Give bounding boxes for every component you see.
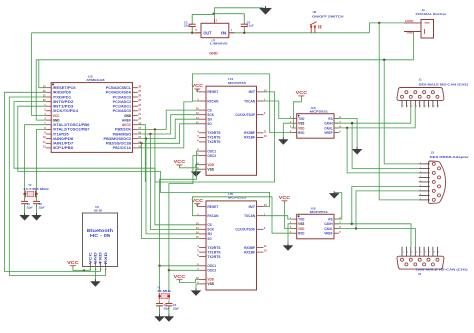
wire MOSI to U5 SI bbox=[146, 139, 199, 234]
wire C2 top lead bbox=[168, 301, 170, 304]
switch U8 ON/OFF bbox=[310, 22, 321, 33]
svg-text:/RXD/PD0: /RXD/PD0 bbox=[53, 91, 71, 95]
svg-text:VCC: VCC bbox=[174, 274, 186, 279]
capacitor C2 plates bbox=[165, 304, 172, 306]
pin 5 J1 bbox=[418, 95, 421, 98]
pin 4 J1 bbox=[414, 91, 417, 94]
svg-text:PB1/OC1A: PB1/OC1A bbox=[113, 146, 132, 150]
capacitor C4 plates bbox=[241, 24, 248, 26]
svg-text:GND: GND bbox=[53, 118, 60, 122]
svg-text:RXCAN: RXCAN bbox=[207, 214, 218, 218]
svg-text:IN: IN bbox=[221, 31, 226, 36]
pin SCK U4 bbox=[199, 114, 206, 116]
svg-text:RX0BF: RX0BF bbox=[244, 246, 256, 250]
svg-text:SI: SI bbox=[207, 232, 211, 236]
wire VCC to rail bbox=[32, 33, 46, 116]
svg-text:PC1/ADC1: PC1/ADC1 bbox=[113, 105, 131, 109]
ground U2 VSS bbox=[283, 243, 293, 250]
wire XTAL2 to Y2 bbox=[37, 129, 46, 194]
wire CANL2 to J2 bbox=[334, 229, 415, 247]
svg-text:/XCK/T0/PD4: /XCK/T0/PD4 bbox=[53, 109, 78, 113]
wire C2 bottom lead bbox=[168, 306, 170, 317]
junction CANL1 bbox=[346, 127, 348, 129]
wire U5 VSS to gnd bbox=[196, 284, 199, 291]
IC U5 MCP2515 body bbox=[206, 201, 257, 290]
svg-text:SI: SI bbox=[207, 118, 211, 122]
capacitor C5 plates bbox=[21, 201, 28, 203]
pin TX0RTS U4 bbox=[199, 132, 206, 134]
svg-text:MCP2551: MCP2551 bbox=[310, 109, 329, 113]
svg-text:ON/OFF SWITCH: ON/OFF SWITCH bbox=[312, 15, 343, 19]
wire C4 to GND bbox=[214, 13, 245, 15]
pin SI U5 bbox=[199, 233, 206, 235]
pin RS U3 bbox=[334, 118, 339, 120]
pin RXCAN U4 bbox=[199, 100, 206, 102]
pin VREF U2 bbox=[334, 232, 339, 234]
wire SCK to U5 CS bbox=[155, 129, 199, 224]
junction BT vcc bbox=[83, 269, 85, 271]
pin PC5/ADC5SCL U1 bbox=[133, 87, 138, 89]
pin SCK U5 bbox=[199, 228, 206, 230]
svg-text:Bluetooth: Bluetooth bbox=[87, 228, 113, 234]
pin TX2RTS U5 bbox=[199, 256, 206, 258]
pin OSC1 U5 bbox=[199, 265, 206, 267]
wire U2 VSS to gnd bbox=[288, 224, 292, 246]
pin PC2/ADC2 U1 bbox=[133, 101, 138, 103]
pin OSC2 U4 bbox=[199, 155, 206, 157]
wire INT1 to U5 INT bbox=[18, 106, 270, 206]
pin TX0RTS U5 bbox=[199, 247, 206, 249]
junction CANH2 bbox=[351, 223, 353, 225]
svg-text:PC0/ADC0: PC0/ADC0 bbox=[113, 109, 131, 113]
wire +5V rail left (OUT of U7) bbox=[32, 32, 201, 34]
IC U3 MCP2551 body bbox=[297, 114, 334, 139]
pin PC4/ADC4SDA U1 bbox=[133, 91, 138, 93]
pin GND stub J4 bbox=[404, 31, 421, 33]
wire C3 to GND bbox=[192, 13, 214, 15]
svg-text:GND: GND bbox=[209, 51, 218, 55]
svg-text:PC3/ADC3: PC3/ADC3 bbox=[113, 95, 131, 99]
svg-text:VREF: VREF bbox=[324, 130, 333, 135]
capacitor C3 plates bbox=[189, 24, 196, 26]
pin RXCAN U5 bbox=[199, 215, 206, 217]
svg-text:HC-05: HC-05 bbox=[94, 209, 103, 213]
wire C4 bottom lead bbox=[243, 27, 245, 33]
svg-text:VSS: VSS bbox=[207, 282, 214, 286]
svg-text:/AIN1/PD7: /AIN1/PD7 bbox=[53, 142, 74, 146]
pin VDD U2 bbox=[292, 228, 297, 230]
junction C3 rail bbox=[191, 32, 193, 34]
svg-text:TX2RTS: TX2RTS bbox=[207, 140, 221, 144]
svg-text:OSC2: OSC2 bbox=[207, 269, 216, 273]
pin INT U4 bbox=[257, 91, 264, 93]
svg-text:GND: GND bbox=[124, 114, 131, 118]
svg-text:PB3/MOSI/OC2: PB3/MOSI/OC2 bbox=[104, 137, 132, 141]
pin 8 J3 bbox=[419, 194, 430, 196]
svg-text:RXD: RXD bbox=[298, 130, 304, 135]
pin PB4/MISO U1 bbox=[133, 133, 138, 135]
module U6 Bluetooth HC-05 body bbox=[83, 213, 118, 267]
svg-text:GND: GND bbox=[407, 30, 413, 34]
connector J2 DE9 MALE HS-CAN (CH1) bbox=[397, 256, 444, 269]
pin /INT0/PD2 U1 bbox=[46, 101, 51, 103]
junction SS branch bbox=[140, 142, 142, 144]
svg-text:VCC: VCC bbox=[174, 159, 186, 164]
junction cap gnd bbox=[213, 13, 215, 15]
wire U5 TXCAN to U2 TXD bbox=[264, 216, 292, 219]
svg-text:PC2/ADC2: PC2/ADC2 bbox=[113, 100, 131, 104]
svg-text:16 MHz: 16 MHz bbox=[157, 289, 172, 293]
ground U3 RS bbox=[352, 147, 362, 154]
pin 2 GND stub U7 bbox=[213, 18, 215, 23]
junction Y2 left bbox=[23, 193, 25, 195]
svg-text:22pF: 22pF bbox=[26, 206, 33, 209]
wire RESET bbox=[39, 60, 46, 88]
svg-text:RX1BF: RX1BF bbox=[244, 250, 256, 254]
pin CS U5 bbox=[199, 224, 206, 226]
svg-text:COAXIAL Buchse: COAXIAL Buchse bbox=[416, 12, 447, 16]
pin PC1/ADC1 U1 bbox=[133, 105, 138, 107]
pin 3 OUT stub U7 bbox=[194, 32, 201, 34]
junction OSC2 Y1 bbox=[168, 269, 170, 271]
wire MISO to U5 SCK bbox=[150, 134, 199, 229]
wire C3 top lead bbox=[191, 14, 193, 24]
junction MISO branch bbox=[149, 133, 151, 135]
svg-text:RESET: RESET bbox=[207, 90, 219, 94]
pin AVCC U1 bbox=[133, 124, 138, 126]
pin AREF U1 bbox=[133, 119, 138, 121]
pin /XCK/T0/PD4 U1 bbox=[46, 110, 51, 112]
ground U4 VSS bbox=[191, 169, 201, 176]
pin 4 J2 bbox=[414, 263, 417, 266]
pin RESET U5 bbox=[199, 206, 206, 208]
wire VCC to U2 VDD bbox=[285, 201, 297, 229]
wire SS to U4 SO bbox=[138, 124, 199, 144]
wire CANH1 to J3 bbox=[352, 123, 419, 168]
svg-text:VDD: VDD bbox=[207, 278, 214, 282]
svg-text:DE9 MALE HS-CAN (CH1): DE9 MALE HS-CAN (CH1) bbox=[416, 268, 468, 272]
pin VDD U3 bbox=[292, 127, 297, 129]
svg-text:TX0RTS: TX0RTS bbox=[207, 131, 221, 135]
svg-text:TX0RTS: TX0RTS bbox=[207, 246, 221, 250]
wire GND to J3 pin bbox=[384, 60, 419, 164]
pin TXD U6 bbox=[100, 262, 102, 267]
pin RESET U4 bbox=[199, 91, 206, 93]
pin /TXD/PD1 U1 bbox=[46, 96, 51, 98]
wire CANH2 to J2 bbox=[334, 224, 411, 247]
svg-text:PB4/MISO: PB4/MISO bbox=[113, 132, 132, 136]
pin 6 J2 bbox=[423, 263, 426, 266]
svg-text:/T1/PD5: /T1/PD5 bbox=[53, 132, 69, 136]
pin RXD U2 bbox=[292, 232, 297, 234]
wire OSC1 shared bbox=[160, 151, 200, 266]
wire GND to bus bbox=[36, 60, 46, 120]
wire VCC to U4 RESET bbox=[197, 89, 199, 92]
pin VREF U3 bbox=[334, 132, 339, 134]
pin RS U2 bbox=[334, 218, 339, 220]
wire U3 RXD to U4 RXCAN bbox=[192, 74, 291, 133]
pin TX2RTS U4 bbox=[199, 141, 206, 143]
pin RX0BF U5 bbox=[257, 247, 264, 249]
pin PB2/SS/OC1B U1 bbox=[133, 142, 138, 144]
pin /RESET/PC6 U1 bbox=[46, 87, 51, 89]
wire Y1 right lead bbox=[168, 270, 170, 292]
pin SO U4 bbox=[199, 123, 206, 125]
svg-text:VDD: VDD bbox=[207, 163, 214, 167]
ground C2 bbox=[164, 314, 174, 321]
pin 2 J2 bbox=[405, 263, 408, 266]
svg-text:SO: SO bbox=[207, 237, 212, 241]
svg-text:/INT1/PD3: /INT1/PD3 bbox=[53, 105, 74, 109]
svg-text:CLKOUTSOF: CLKOUTSOF bbox=[235, 113, 256, 117]
svg-text:AREF: AREF bbox=[122, 118, 132, 122]
svg-text:/RESET/PC6: /RESET/PC6 bbox=[53, 86, 76, 90]
pin 9 J2 bbox=[436, 258, 439, 261]
svg-text:OUT: OUT bbox=[203, 31, 212, 36]
pin CANH U3 bbox=[334, 122, 339, 124]
svg-text:OSC1: OSC1 bbox=[207, 264, 216, 268]
svg-text:VCC: VCC bbox=[192, 198, 204, 203]
svg-text:DE9 MALE MS-CAN (CH2): DE9 MALE MS-CAN (CH2) bbox=[419, 82, 468, 86]
pin 2 J3 bbox=[419, 167, 430, 169]
svg-text:TX2RTS: TX2RTS bbox=[207, 255, 221, 259]
junction Y2 right bbox=[35, 193, 37, 195]
pin CANL U3 bbox=[334, 127, 339, 129]
svg-text:HC - 05: HC - 05 bbox=[90, 233, 111, 239]
pin 5 J2 bbox=[418, 258, 421, 261]
junction MOSI branch bbox=[145, 137, 147, 139]
wire VCC HC05 bbox=[73, 266, 90, 271]
wire C6 bottom lead bbox=[36, 204, 38, 215]
IC U4 MCP2515 body bbox=[206, 86, 257, 175]
wire MOSI to U4 SI bbox=[138, 119, 199, 138]
wire INT0 to U4 INT bbox=[14, 92, 275, 182]
wire C1 bottom lead bbox=[159, 306, 161, 317]
pin VDD U4 bbox=[199, 164, 206, 166]
svg-text:/XTAL2/TOSC2/PB7: /XTAL2/TOSC2/PB7 bbox=[53, 128, 90, 132]
pin /AIN0/PD6 U1 bbox=[46, 138, 51, 140]
pin RX1BF U4 bbox=[257, 136, 264, 138]
svg-text:DE9 OBDII-Adapter: DE9 OBDII-Adapter bbox=[430, 155, 470, 159]
pin RX0BF U4 bbox=[257, 132, 264, 134]
svg-text:INT: INT bbox=[249, 90, 257, 94]
pin 9 J1 bbox=[436, 95, 439, 98]
pin 1 J1 bbox=[401, 95, 404, 98]
pin 3 J1 bbox=[409, 95, 412, 98]
pin VSS U2 bbox=[292, 223, 297, 225]
ground regulator bbox=[260, 6, 272, 14]
pin VSS U5 bbox=[199, 283, 206, 285]
junction CANL2 bbox=[355, 227, 357, 229]
wire U2 RS to gnd bbox=[334, 193, 342, 220]
wire U3 VSS to gnd bbox=[283, 123, 291, 139]
svg-text:RXD: RXD bbox=[104, 251, 108, 264]
junction Y1 right lead bbox=[168, 295, 170, 297]
wire J4 GND down bbox=[413, 32, 415, 60]
pin 7 J3 bbox=[419, 190, 430, 192]
svg-text:MCP2551: MCP2551 bbox=[310, 210, 329, 214]
svg-text:CLKOUTSOF: CLKOUTSOF bbox=[235, 228, 256, 232]
connector J3 DE9 OBDII-Adapter bbox=[429, 161, 446, 203]
pin SO U5 bbox=[199, 237, 206, 239]
svg-text:TXCAN: TXCAN bbox=[244, 99, 255, 103]
svg-text:GND: GND bbox=[94, 251, 98, 264]
svg-text:VCC: VCC bbox=[192, 83, 204, 88]
svg-text:22pF: 22pF bbox=[38, 206, 45, 209]
wire U2 RXD to U5 RXCAN bbox=[192, 197, 291, 233]
pin 9 J3 bbox=[419, 199, 430, 201]
junction Y1 left lead bbox=[158, 295, 160, 297]
pin GND U6 bbox=[94, 262, 96, 267]
pin INT U5 bbox=[257, 206, 264, 208]
ground C5 bbox=[20, 213, 30, 220]
pin 1 J2 bbox=[401, 258, 404, 261]
svg-text:J1: J1 bbox=[419, 78, 423, 82]
svg-text:INT: INT bbox=[249, 205, 257, 209]
wire CANH1 to J1 bbox=[334, 107, 411, 123]
wire CANL2 to J3 bbox=[356, 191, 419, 229]
pin 12VDC stub J4 bbox=[404, 22, 421, 24]
svg-text:AVCC: AVCC bbox=[122, 123, 132, 127]
crystal Y1 symbol bbox=[159, 293, 169, 300]
microcontroller U1 ATMEGA8 body bbox=[51, 83, 132, 153]
capacitor C6 plates bbox=[33, 201, 40, 203]
wire rail right (IN of U7 to switch) bbox=[229, 32, 370, 34]
wire U4 TXCAN to U3 TXD bbox=[264, 101, 292, 119]
pin GND U1 bbox=[46, 119, 51, 121]
wire SCK to U4 CS bbox=[138, 110, 199, 129]
junction 12V branch bbox=[378, 22, 380, 24]
op-amp U7 L4940V5 body bbox=[201, 23, 229, 37]
ground U2 RS bbox=[329, 191, 339, 198]
pin 8 J2 bbox=[431, 263, 434, 266]
pin 1 marker U3 bbox=[298, 115, 300, 117]
pin PB3/MOSI/OC2 U1 bbox=[133, 138, 138, 140]
ground HC-05 bbox=[91, 279, 101, 286]
pin TX1RTS U4 bbox=[199, 136, 206, 138]
pin 1 J3 bbox=[419, 163, 430, 165]
pin CS U4 bbox=[199, 109, 206, 111]
svg-text:RX0BF: RX0BF bbox=[244, 131, 256, 135]
pin VDD U5 bbox=[199, 278, 206, 280]
wire TXD to HC05 bbox=[9, 97, 105, 275]
wire U3 RS to gnd bbox=[334, 119, 357, 150]
svg-text:PB2/SS/OC1B: PB2/SS/OC1B bbox=[106, 142, 132, 146]
pin SI U4 bbox=[199, 118, 206, 120]
svg-text:U8: U8 bbox=[313, 10, 317, 14]
IC U2 MCP2551 body bbox=[297, 214, 334, 239]
svg-text:22pF: 22pF bbox=[172, 307, 179, 310]
wire U4 VSS to gnd bbox=[196, 169, 199, 171]
pin PC0/ADC0 U1 bbox=[133, 110, 138, 112]
wire GND HC05 bbox=[94, 267, 96, 282]
wire 12V to J4 bbox=[370, 23, 405, 33]
pin 1 IN stub U7 bbox=[229, 32, 235, 34]
pin /ICP1/PB0 U1 bbox=[46, 147, 51, 149]
wire GND bus horizontal bbox=[36, 59, 413, 61]
pin TXD U3 bbox=[292, 118, 297, 120]
wire 12V down to J3 pin 9 bbox=[379, 23, 419, 200]
ground U5 VSS bbox=[191, 288, 201, 295]
wire CANL1 to J3 bbox=[347, 128, 419, 173]
ground U3 VSS bbox=[279, 137, 289, 144]
svg-text:/AIN0/PD6: /AIN0/PD6 bbox=[53, 137, 74, 141]
ground C6 bbox=[32, 213, 42, 220]
wire MISO to U4 SCK bbox=[138, 115, 199, 134]
wire VCC to U5 RESET bbox=[197, 204, 199, 207]
pin TX1RTS U5 bbox=[199, 251, 206, 253]
pin VCC U6 bbox=[89, 262, 91, 267]
wire VCC to U4 VDD bbox=[179, 165, 199, 168]
pin /AIN1/PD7 U1 bbox=[46, 142, 51, 144]
pin GND U1 bbox=[133, 115, 138, 117]
junction CANH1 bbox=[351, 122, 353, 124]
wire AVCC bbox=[138, 125, 145, 182]
svg-text:22uF: 22uF bbox=[183, 24, 191, 28]
svg-text:SCK: SCK bbox=[207, 113, 214, 117]
connector J4 body bbox=[421, 20, 434, 39]
svg-text:PC5/ADC5SCL: PC5/ADC5SCL bbox=[106, 86, 132, 90]
svg-text:TXCAN: TXCAN bbox=[244, 214, 255, 218]
pin 1 marker U1 bbox=[52, 84, 54, 86]
ground C1 bbox=[155, 314, 165, 321]
pin PB5/SCK U1 bbox=[133, 128, 138, 130]
svg-text:CS: CS bbox=[207, 108, 212, 112]
connector J1 DE9 MALE MS-CAN (CH2) bbox=[397, 88, 444, 101]
pin RXD U3 bbox=[292, 132, 297, 134]
pin 8 J1 bbox=[431, 91, 434, 94]
pin 3 J3 bbox=[419, 172, 430, 174]
wire Y1 left lead bbox=[159, 266, 161, 292]
wire VCC to U3 VDD bbox=[293, 96, 301, 128]
pin CANH U2 bbox=[334, 223, 339, 225]
pin 1 marker U2 bbox=[298, 216, 300, 218]
wire C5 bottom lead bbox=[24, 204, 26, 215]
wire C3 bottom lead bbox=[191, 27, 193, 33]
wire VCC to U5 VDD bbox=[179, 279, 199, 282]
svg-text:0.1uF: 0.1uF bbox=[247, 24, 254, 28]
pin /INT1/PD3 U1 bbox=[46, 105, 51, 107]
pin 5 J3 bbox=[419, 181, 430, 183]
svg-text:RXCAN: RXCAN bbox=[207, 99, 218, 103]
svg-text:/ICP1/PB0: /ICP1/PB0 bbox=[53, 146, 74, 150]
pin TXD U2 bbox=[292, 218, 297, 220]
wire CANL1 to J1 bbox=[334, 107, 415, 128]
svg-text:SCK: SCK bbox=[207, 228, 214, 232]
svg-text:14.7456 MHz: 14.7456 MHz bbox=[23, 187, 50, 191]
pin CANL U2 bbox=[334, 228, 339, 230]
pin 2 J1 bbox=[405, 91, 408, 94]
pin OSC1 U4 bbox=[199, 150, 206, 152]
svg-text:TX1RTS: TX1RTS bbox=[207, 250, 221, 254]
svg-text:RXD: RXD bbox=[298, 231, 304, 236]
pin CLKOUTSOF U4 bbox=[257, 114, 264, 116]
pin /XTAL1/TOSC1/PB6 U1 bbox=[46, 124, 51, 126]
svg-text:RX1BF: RX1BF bbox=[244, 136, 256, 140]
svg-text:/INT0/PD2: /INT0/PD2 bbox=[53, 100, 74, 104]
svg-text:SO: SO bbox=[207, 122, 212, 126]
svg-text:MCP2515: MCP2515 bbox=[228, 81, 247, 85]
svg-text:VCC: VCC bbox=[53, 114, 60, 118]
pin /RXD/PD0 U1 bbox=[46, 91, 51, 93]
wire XTAL1 to Y2 bbox=[25, 125, 46, 194]
svg-text:CS: CS bbox=[207, 223, 212, 227]
pin 4 J3 bbox=[419, 176, 430, 178]
pin /XTAL2/TOSC2/PB7 U1 bbox=[46, 128, 51, 130]
pin RX1BF U5 bbox=[257, 251, 264, 253]
wire PB1 riser bbox=[138, 102, 193, 148]
svg-text:VREF: VREF bbox=[324, 231, 333, 236]
